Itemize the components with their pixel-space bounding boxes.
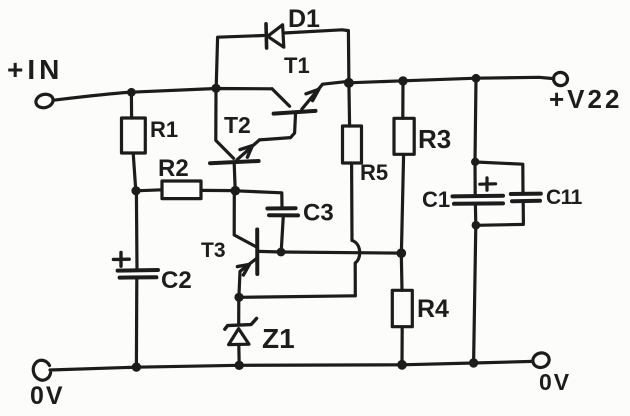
transistor T2 collector bbox=[216, 89, 234, 159]
bottom rail bbox=[50, 361, 533, 370]
svg-text:R3: R3 bbox=[418, 124, 451, 154]
diode D1 triangle bbox=[268, 25, 284, 47]
svg-text:C3: C3 bbox=[303, 200, 334, 227]
transistor T3 emitter with arrow bbox=[239, 258, 257, 297]
transistor T2 base bar bbox=[210, 161, 259, 163]
svg-text:0V: 0V bbox=[30, 382, 65, 410]
svg-text:T2: T2 bbox=[224, 112, 251, 138]
capacitor C2 bottom plate bbox=[120, 275, 157, 279]
diode D1 right wire to rail bbox=[284, 30, 349, 83]
svg-text:+V22: +V22 bbox=[549, 84, 622, 114]
wire rail node to R5 bbox=[347, 83, 351, 126]
wire rail to R1 bbox=[130, 92, 133, 118]
svg-text:C1: C1 bbox=[422, 187, 450, 212]
wire rail to R3 bbox=[401, 81, 404, 118]
wire top rail right section bbox=[349, 77, 554, 83]
wire +IN to top rail bbox=[53, 89, 272, 101]
junction dot R1/R2/C2 bbox=[131, 186, 140, 195]
wire T2 node to C3 bbox=[235, 191, 282, 208]
transistor T3 base bar bbox=[255, 230, 259, 275]
svg-text:T3: T3 bbox=[201, 239, 226, 262]
wire C1 node to top plate bbox=[473, 162, 476, 196]
transistor T2 emitter with arrow bbox=[237, 140, 259, 160]
svg-text:C11: C11 bbox=[546, 186, 583, 209]
transistor T3 base wire bbox=[234, 192, 255, 247]
capacitor C3 top plate bbox=[267, 206, 295, 210]
svg-text:Z1: Z1 bbox=[262, 323, 295, 354]
capacitor C2 plus sign bbox=[113, 252, 129, 266]
terminal +V22 bbox=[552, 71, 568, 86]
resistor R3 bbox=[394, 118, 414, 154]
capacitor C2 top plate bbox=[118, 268, 158, 273]
junction dots bottom rail bbox=[132, 362, 141, 371]
svg-text:R2: R2 bbox=[158, 155, 189, 182]
capacitor C2 bottom wire bbox=[135, 278, 139, 367]
svg-text:+IN: +IN bbox=[7, 54, 63, 85]
wire C1 bottom bbox=[474, 204, 478, 225]
junction dots top rail bbox=[127, 88, 136, 97]
svg-text:C2: C2 bbox=[161, 267, 192, 294]
diode D1 cathode bar bbox=[264, 24, 268, 48]
transistor T1 emitter with arrow bbox=[302, 82, 346, 110]
diode D1 loop left wire bbox=[216, 36, 263, 88]
svg-text:R1: R1 bbox=[150, 117, 178, 142]
transistor T1 base bar bbox=[274, 111, 316, 114]
wire return to T3 emitter node bbox=[239, 296, 355, 298]
zener Z1 bottom wire bbox=[237, 345, 241, 365]
junction dot R3/R4/collector wire bbox=[397, 248, 407, 258]
wire T2 base down bbox=[234, 164, 235, 191]
capacitor C11 bottom plate bbox=[512, 199, 540, 203]
wire R1 to node bbox=[133, 153, 136, 190]
capacitor C3 bottom plate bbox=[269, 213, 298, 217]
capacitor C1 bottom plate bbox=[454, 201, 503, 205]
terminal 0V left bbox=[33, 360, 50, 380]
resistor R4 bbox=[392, 290, 412, 326]
wire node to R2 bbox=[136, 190, 162, 191]
wire rail to C1 bbox=[475, 78, 476, 161]
capacitor C11 top plate bbox=[511, 192, 541, 196]
svg-text:R5: R5 bbox=[360, 160, 388, 185]
capacitor C11 top loop bbox=[476, 162, 523, 192]
capacitor C3 bottom wire bbox=[281, 216, 283, 252]
svg-text:0V: 0V bbox=[539, 369, 571, 395]
capacitor C2 top wire bbox=[135, 191, 139, 270]
svg-text:R4: R4 bbox=[417, 295, 449, 323]
zener Z1 triangle bbox=[229, 329, 249, 345]
wire C1 node to bottom rail bbox=[474, 225, 476, 362]
capacitor C1 plus sign bbox=[480, 178, 496, 190]
wire R2 to T2 base node bbox=[201, 189, 235, 192]
wire R4 to bottom rail bbox=[400, 327, 403, 365]
transistor T3 collector wire to R4 node bbox=[259, 251, 402, 253]
svg-text:T1: T1 bbox=[284, 53, 310, 78]
wire R5 down with hop over collector wire bbox=[352, 163, 360, 296]
junction dot T3 emitter/Z1 bbox=[234, 293, 243, 302]
junction dot C3/T3 collector bbox=[277, 248, 286, 257]
wire node to R4 bbox=[400, 254, 404, 291]
junction dot T2 base/R2/C3 bbox=[231, 186, 241, 196]
wire T1 base to T2 emitter bbox=[260, 112, 296, 140]
capacitor C11 bottom loop bbox=[476, 202, 523, 226]
svg-text:D1: D1 bbox=[288, 5, 320, 33]
terminal +IN bbox=[34, 92, 54, 109]
terminal 0V right bbox=[531, 351, 551, 369]
resistor R2 bbox=[162, 181, 201, 199]
zener Z1 top wire bbox=[237, 298, 240, 323]
zener Z1 cathode bar with ticks bbox=[225, 318, 257, 329]
resistor R1 bbox=[122, 118, 146, 153]
junction dots C1/C11 bbox=[471, 158, 479, 166]
wire R3 to node bbox=[401, 155, 403, 253]
resistor R5 bbox=[343, 126, 362, 163]
capacitor C1 top plate bbox=[453, 194, 504, 199]
transistor T1 collector bbox=[272, 89, 290, 107]
